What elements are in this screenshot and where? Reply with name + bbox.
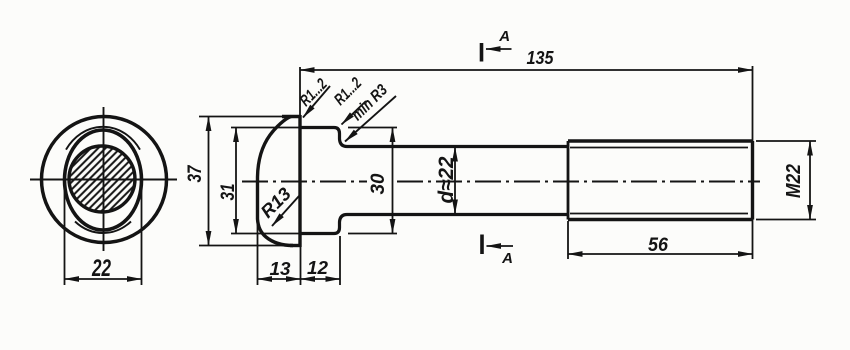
thread crest top xyxy=(568,139,753,142)
thread root bottom xyxy=(570,213,748,215)
shank top edge xyxy=(347,145,568,148)
section plane bar top xyxy=(480,43,484,62)
svg-text:12: 12 xyxy=(307,258,328,278)
dim 12 line xyxy=(301,278,341,280)
thread start line xyxy=(567,141,570,220)
collar echo arc bottom xyxy=(75,222,131,234)
dim d22 line xyxy=(454,147,456,214)
dim 12 extension right xyxy=(339,236,341,285)
vertical centerline xyxy=(103,107,105,251)
section arrow top xyxy=(486,48,512,50)
leader min R3 xyxy=(345,96,396,142)
thread crest bottom xyxy=(568,218,753,221)
extension line left for dim 22 xyxy=(64,181,66,285)
head top edge xyxy=(282,115,301,118)
dim 37 line xyxy=(208,117,210,246)
dim 30 line xyxy=(392,128,394,234)
extension line right for dim 22 xyxy=(141,181,143,285)
svg-text:22: 22 xyxy=(91,255,111,282)
head bottom edge xyxy=(290,244,301,247)
svg-text:M22: M22 xyxy=(783,164,805,198)
dim 135 extension left xyxy=(299,67,301,115)
horizontal centerline xyxy=(30,179,177,181)
leader R13 xyxy=(272,196,299,226)
dim 31 extension top xyxy=(231,127,301,129)
leader R1...2 second xyxy=(342,101,367,125)
section arrow bottom xyxy=(487,245,514,247)
leader R1...2 first xyxy=(303,86,330,118)
svg-text:30: 30 xyxy=(368,173,389,194)
svg-text:37: 37 xyxy=(185,164,206,182)
dim 56 line xyxy=(568,253,753,255)
dim 37 extension bottom xyxy=(199,245,291,247)
dim 13 extension left xyxy=(257,221,259,285)
collar echo arc top xyxy=(66,127,140,150)
thread root top xyxy=(570,147,748,149)
svg-text:R1...2: R1...2 xyxy=(297,76,331,110)
svg-text:A: A xyxy=(498,28,510,45)
svg-text:A: A xyxy=(501,250,513,267)
dim 135 extension right lower xyxy=(752,220,754,260)
svg-text:d≈22: d≈22 xyxy=(435,156,458,203)
svg-text:R13: R13 xyxy=(257,184,295,222)
section plane bar bottom xyxy=(480,235,484,255)
dim M22 line xyxy=(809,141,811,220)
dim 37 extension top xyxy=(199,116,284,118)
axis centerline right part xyxy=(397,181,760,183)
svg-text:56: 56 xyxy=(648,235,668,256)
dim M22 extension bottom xyxy=(756,219,816,221)
svg-text:13: 13 xyxy=(270,259,291,279)
dim 13 line xyxy=(258,278,301,280)
dim 135 line xyxy=(300,69,753,71)
bolt end face xyxy=(751,141,754,220)
head outer circle xyxy=(42,117,167,243)
dim 13/12 shared extension xyxy=(300,247,302,285)
shank section circle (hatched) xyxy=(69,146,135,212)
collar top edge with fillets xyxy=(300,128,347,147)
dim 56 extension left xyxy=(567,221,569,259)
head dome oval xyxy=(65,130,142,230)
dim 30 extension bottom xyxy=(348,233,397,235)
dim 135 extension right upper xyxy=(752,66,754,141)
axis centerline xyxy=(242,181,367,183)
dim M22 extension top xyxy=(756,140,816,142)
dim 31 line xyxy=(235,128,237,234)
dim 30 extension top xyxy=(348,127,397,129)
shank bottom edge xyxy=(347,213,568,216)
head face xyxy=(298,115,301,247)
dimension line 22 xyxy=(65,278,142,280)
head dome profile xyxy=(258,117,294,246)
collar bottom edge with fillets xyxy=(300,215,347,234)
dim 31 extension bottom xyxy=(231,233,301,235)
svg-text:31: 31 xyxy=(218,184,239,201)
svg-text:135: 135 xyxy=(527,48,555,68)
